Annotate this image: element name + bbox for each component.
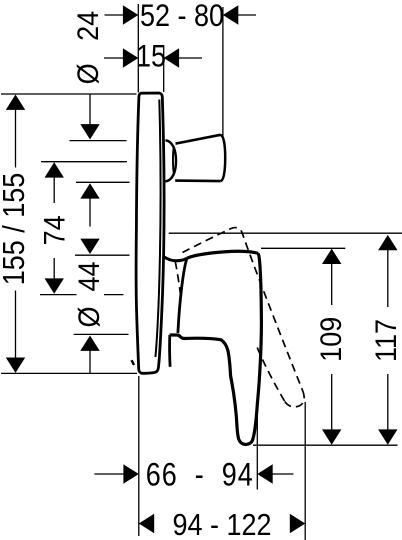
extension line: plate front face (bottom): [138, 376, 140, 536]
arrow 94-122 left: [139, 514, 154, 533]
arrow 66-94 left: [123, 464, 138, 483]
extension line: solid handle tip: [256, 412, 258, 490]
arrow 52-80 right: [223, 5, 238, 24]
arrow d44 top (down): [80, 239, 99, 254]
reference line: 155 top: [1, 93, 137, 95]
handle (dashed alternate position): [175, 228, 304, 407]
arrow 74 top (up): [45, 162, 64, 177]
plate inner face line: [155, 100, 160, 358]
arrow 117 top (up): [378, 235, 397, 250]
extension line: plate front face (top): [137, 4, 139, 93]
arrow 109 top (up): [322, 249, 341, 264]
escutcheon hump top edge: [163, 256, 187, 261]
arrow 15 right: [164, 48, 179, 67]
arrow 94-122 right: [290, 514, 305, 533]
knob bottom edge: [175, 179, 221, 182]
wall plate outline: [136, 93, 225, 373]
dim 15 leaders: [104, 57, 124, 59]
svg-text:15: 15: [136, 38, 166, 74]
extension line: knob tip: [222, 7, 224, 137]
dim d44 bottom shaft: [89, 351, 91, 374]
arrow d24 bottom (up): [80, 183, 99, 198]
dashed inner edge: [257, 347, 285, 402]
dim 117 shafts: [387, 250, 389, 307]
tick: handle pivot axis (74 bottom): [40, 294, 77, 296]
reference line: knob axis (74 top): [41, 161, 127, 163]
small tick near plate bottom left: [132, 360, 135, 365]
svg-text:52 - 80: 52 - 80: [140, 0, 224, 34]
dim 66-94 leaders: [94, 473, 124, 475]
arrow 109 bottom (down): [322, 429, 341, 444]
reference line: 109/117 bottom: [253, 444, 398, 446]
reference line: 109 top (handle top): [261, 247, 345, 249]
arrow d44 bottom (up): [80, 336, 99, 351]
escutcheon left edge: [178, 258, 187, 333]
tick: escutcheon bottom (d44): [74, 333, 129, 335]
knob base bulge: [166, 140, 177, 181]
dim 52-80 leaders: [105, 14, 125, 16]
arrow d24 top (down): [80, 124, 99, 139]
arrow 155 top (up): [6, 95, 25, 110]
dim 74 shafts: [53, 177, 55, 203]
reference line: 155 bottom: [1, 372, 137, 374]
svg-text:117: 117: [370, 319, 402, 362]
arrow 117 bottom (down): [378, 429, 397, 444]
svg-text:155 / 155: 155 / 155: [0, 173, 32, 286]
svg-text:Ø 44: Ø 44: [73, 261, 106, 327]
arrow 52-80 left: [123, 5, 138, 24]
tick: knob top (d24): [70, 140, 127, 142]
arrow 15 left: [123, 48, 138, 67]
dashed tip: [285, 391, 305, 407]
svg-text:94 - 122: 94 - 122: [172, 509, 271, 540]
extension line: dashed handle tip: [304, 402, 306, 540]
dim 155 shafts: [15, 110, 17, 168]
arrow 74 bottom (down): [45, 278, 64, 293]
extension line: wall plane: [163, 45, 165, 92]
dim d24 shafts: [89, 94, 91, 126]
lever right edge and tip: [170, 253, 262, 444]
escutcheon lower edge: [168, 335, 171, 367]
svg-text:66 - 94: 66 - 94: [146, 457, 254, 493]
knob top edge: [176, 135, 221, 144]
dashed neck edge: [175, 262, 181, 298]
arrow 155 bottom (down): [6, 358, 25, 373]
dashed top arc: [183, 228, 303, 391]
lever top edge: [187, 251, 258, 258]
handle (solid position): [163, 251, 261, 444]
arrow 66-94 right: [257, 464, 272, 483]
dim 109 shafts: [331, 264, 333, 305]
knob right cap: [221, 135, 226, 181]
reference line: 117 top: [169, 232, 402, 234]
knob left face: [173, 147, 174, 174]
svg-text:Ø 24: Ø 24: [72, 11, 105, 85]
tick: knob bottom (d24): [76, 181, 130, 183]
tick: escutcheon top (d44): [75, 254, 130, 256]
svg-text:74: 74: [38, 215, 71, 245]
svg-text:109: 109: [315, 317, 348, 362]
